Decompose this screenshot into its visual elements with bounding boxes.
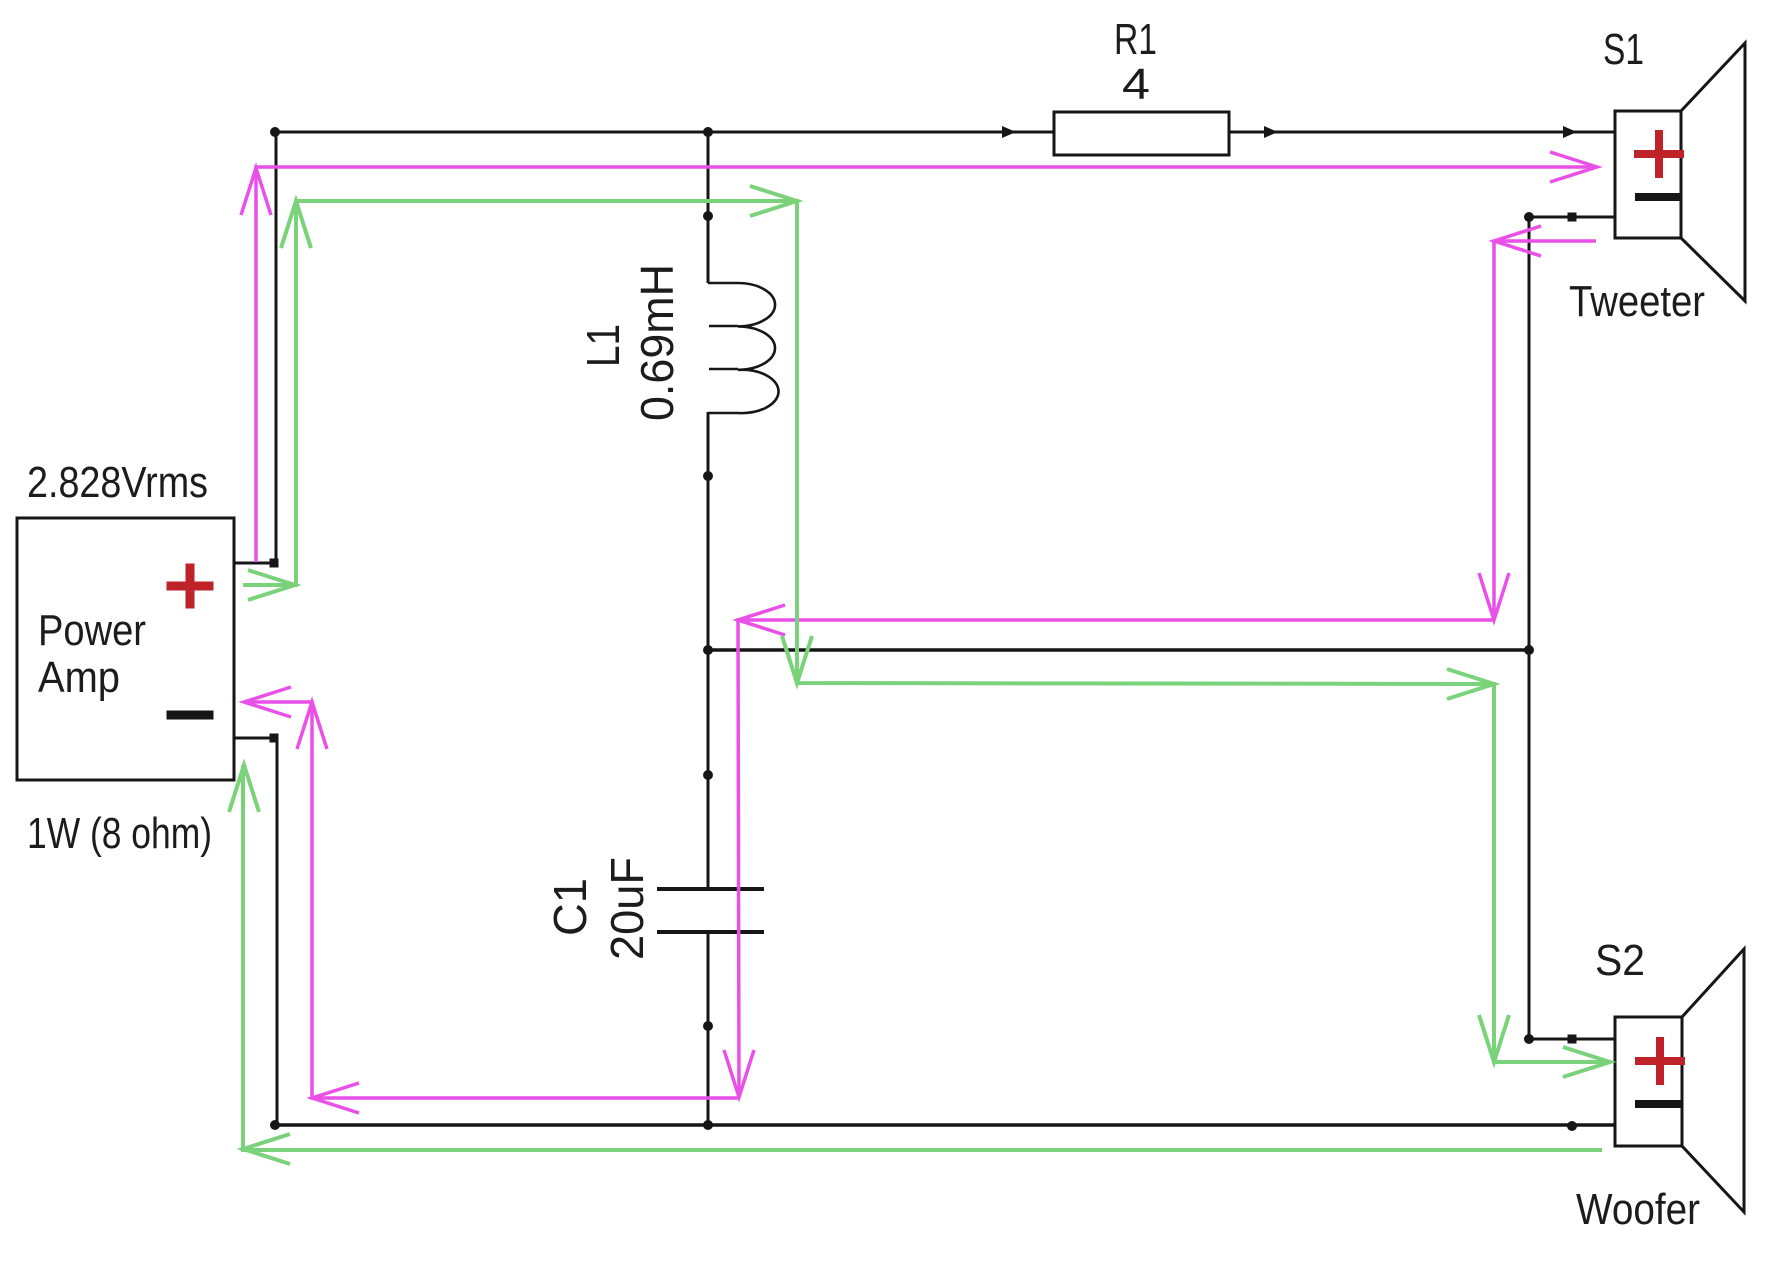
svg-text:S2: S2 [1595,936,1645,985]
svg-text:Tweeter: Tweeter [1569,277,1705,326]
svg-text:20uF: 20uF [601,857,653,960]
svg-text:1W (8 ohm): 1W (8 ohm) [27,809,212,858]
svg-text:R1: R1 [1114,15,1157,64]
svg-text:C1: C1 [544,878,596,936]
svg-text:2.828Vrms: 2.828Vrms [27,458,208,507]
svg-text:0.69mH: 0.69mH [631,264,683,421]
svg-text:4: 4 [1122,60,1150,109]
svg-text:Power: Power [38,606,146,655]
svg-text:S1: S1 [1603,25,1644,74]
svg-text:L1: L1 [577,324,629,367]
svg-text:Woofer: Woofer [1576,1185,1700,1234]
svg-text:Amp: Amp [38,653,120,702]
